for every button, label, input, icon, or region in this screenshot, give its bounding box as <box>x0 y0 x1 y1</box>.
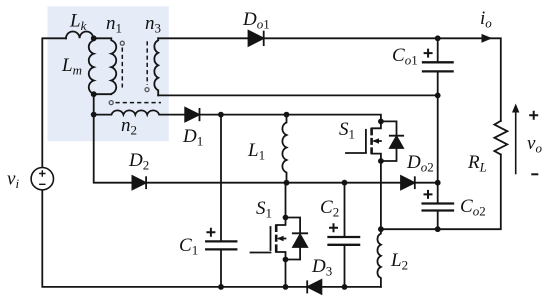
transistor S1 top: gate lead <box>346 152 366 154</box>
junction S1 bottom source node <box>283 257 289 263</box>
transformer shaded box <box>47 6 168 141</box>
winding n1 <box>94 38 117 94</box>
core dashed line of n3 <box>146 41 148 85</box>
inductor Lm <box>89 38 94 94</box>
junction Co1 top <box>435 35 441 41</box>
resistor RL <box>494 121 507 155</box>
wire: vi bottom to bottom rail <box>42 190 381 287</box>
node A: Lk/Lm/n1 junction <box>91 35 97 41</box>
diode D3 <box>308 280 322 294</box>
junction C2 top <box>342 180 348 186</box>
plus sign vo <box>529 111 538 120</box>
transistor S1 top: drain lead <box>372 121 381 128</box>
junction C2 bottom rail <box>342 284 348 290</box>
wire: S1 top source down through D2 rail to L2 node <box>380 161 382 229</box>
capacitor Co2 <box>437 183 439 230</box>
winding n3 <box>154 38 158 95</box>
wire: S1 bottom source to bottom rail <box>285 260 287 287</box>
body diode of S1 top <box>390 137 403 149</box>
wire: Co1 bottom to Do2 junction <box>437 95 439 182</box>
transistor S1 bottom: mid tap <box>279 238 285 240</box>
transistor S1 top: channel <box>370 128 373 154</box>
polarity dot n3 <box>145 88 149 92</box>
diode Do1 <box>249 31 264 46</box>
polarity dot n2 <box>109 101 113 105</box>
arrowhead S1 top <box>372 138 379 144</box>
arrowhead S1 bottom <box>277 236 284 242</box>
transistor S1 top: mid tap <box>375 140 381 142</box>
junction Do2 cathode / Co2 top <box>435 180 441 186</box>
inductor L2 <box>377 229 380 287</box>
junction S1 top drain <box>378 119 384 125</box>
wire: n3 bottom rail to Co1 <box>158 94 438 96</box>
arrow io <box>482 34 493 43</box>
capacitor C1 <box>220 115 222 287</box>
node C: n2 left junction <box>91 112 97 118</box>
transistor S1 top: gate bar <box>365 130 367 152</box>
junction L1 bottom / S1 bottom drain <box>284 180 290 186</box>
wire: left loop vi top to Lk <box>42 38 66 167</box>
diode Do2 <box>401 176 414 189</box>
plus sign C2 <box>329 223 338 232</box>
junction L1 top <box>284 112 290 118</box>
winding n2 <box>94 110 185 114</box>
body diode of S1 bottom <box>293 235 307 247</box>
inductor Lk <box>66 31 93 38</box>
inductor L1 <box>282 115 286 183</box>
plus sign Co1 <box>424 49 433 58</box>
polarity dot n1 <box>120 41 124 45</box>
core dashed line of n1 <box>121 48 123 88</box>
transistor S1 top: source lead <box>372 154 381 161</box>
plus sign C1 <box>206 228 215 237</box>
minus sign vo <box>531 173 538 175</box>
transistor S1 bottom: source lead <box>276 252 285 260</box>
plus sign Co2 <box>424 190 433 199</box>
junction C1 bottom rail <box>218 284 224 290</box>
core dashed line of n2 <box>116 102 162 104</box>
source vi <box>31 168 53 190</box>
transistor S1 bottom: gate bar <box>270 227 272 250</box>
wire: right side down to output bottom wire <box>381 155 501 230</box>
diode D2 <box>132 176 145 189</box>
node B: Lm/n1 bottom junction <box>91 91 97 97</box>
junction L2 top / Co2 bottom wire <box>378 226 384 232</box>
wire: D1 output to S1 top drain corner <box>200 115 381 122</box>
wire: top rail n3 to right corner <box>158 38 501 121</box>
junction Co1 bottom / n3 rail <box>435 93 441 99</box>
junction D1 cathode / C1 top <box>218 112 224 118</box>
capacitor Co1 <box>437 38 439 95</box>
junction S1 top source <box>378 158 384 164</box>
junction Co2 bottom <box>435 226 441 232</box>
transistor S1 top: body diode branch <box>381 121 403 161</box>
capacitor C2 <box>344 183 346 287</box>
transistor S1 bottom: channel <box>275 225 278 253</box>
junction S1 bottom drain node <box>283 215 289 221</box>
transistor S1 bottom: body diode branch <box>286 218 308 260</box>
transistor S1 bottom: drain lead <box>276 183 285 225</box>
wire: node C down and D2 rail to Co2 <box>94 115 438 183</box>
diode D1 <box>185 108 199 122</box>
arrow vo <box>515 110 517 175</box>
source vi plus minus marks <box>39 170 45 184</box>
wire: node B down to node C <box>93 94 95 114</box>
transistor S1 bottom: gate lead <box>251 252 271 254</box>
junction S1 bottom rail <box>283 284 289 290</box>
